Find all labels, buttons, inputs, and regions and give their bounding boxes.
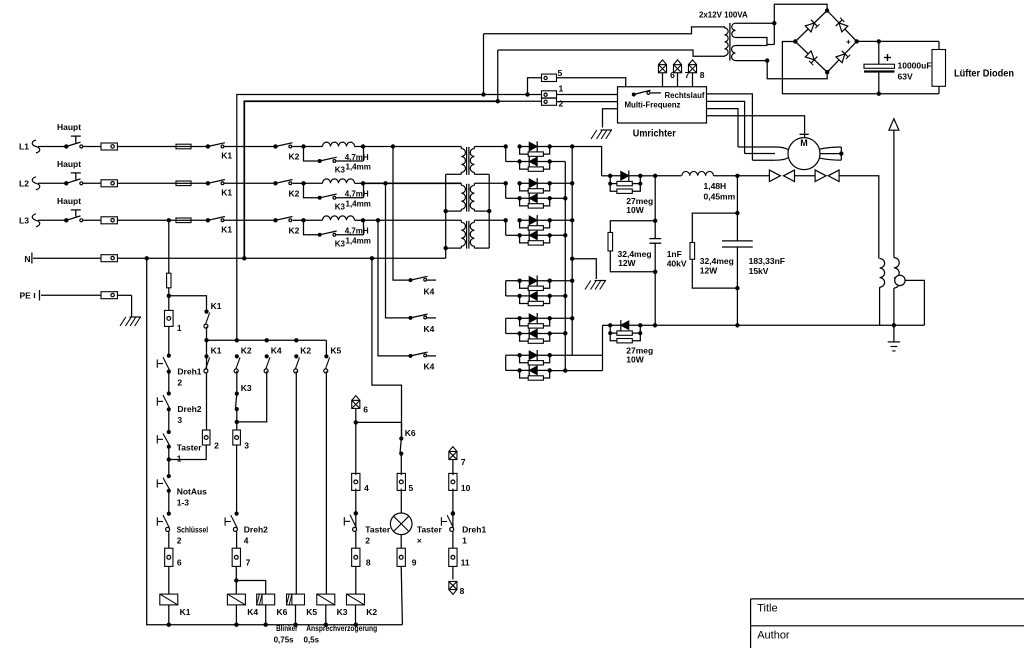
svg-text:63V: 63V: [898, 72, 913, 82]
svg-text:K6: K6: [277, 607, 288, 617]
svg-text:Dreh2: Dreh2: [244, 525, 268, 535]
svg-text:Umrichter: Umrichter: [633, 128, 676, 140]
svg-text:7: 7: [685, 70, 690, 80]
svg-text:10: 10: [461, 483, 471, 493]
svg-text:K6: K6: [405, 428, 416, 438]
svg-text:×: ×: [417, 536, 422, 546]
svg-text:4,7mH: 4,7mH: [345, 190, 369, 199]
svg-text:2: 2: [177, 378, 182, 388]
svg-text:4,7mH: 4,7mH: [345, 153, 369, 162]
svg-text:K1: K1: [211, 346, 222, 356]
svg-text:1: 1: [177, 454, 182, 464]
svg-text:7: 7: [461, 457, 466, 467]
svg-text:Dreh2: Dreh2: [177, 404, 201, 414]
svg-text:L1: L1: [19, 142, 29, 152]
svg-text:8: 8: [700, 70, 705, 80]
svg-text:2: 2: [365, 536, 370, 546]
svg-text:12W: 12W: [618, 258, 636, 268]
svg-text:7: 7: [246, 558, 251, 568]
svg-text:5: 5: [558, 68, 563, 78]
svg-text:L3: L3: [19, 216, 29, 226]
svg-text:Haupt: Haupt: [57, 122, 81, 132]
svg-text:NotAus: NotAus: [177, 487, 207, 497]
svg-text:Blinker: Blinker: [276, 624, 298, 633]
svg-text:4,7mH: 4,7mH: [345, 227, 369, 236]
svg-text:1-3: 1-3: [177, 498, 190, 508]
svg-text:Schlüssel: Schlüssel: [177, 525, 208, 535]
svg-text:K1: K1: [221, 188, 232, 198]
svg-text:K4: K4: [424, 324, 435, 334]
svg-text:Taster: Taster: [417, 525, 443, 535]
svg-text:11: 11: [461, 558, 470, 568]
svg-text:4: 4: [244, 536, 249, 546]
svg-text:1,4mm: 1,4mm: [346, 236, 371, 245]
svg-text:0,45mm: 0,45mm: [704, 192, 736, 202]
svg-text:K2: K2: [289, 225, 300, 235]
svg-text:K2: K2: [289, 188, 300, 198]
svg-text:32,4meg: 32,4meg: [700, 256, 734, 266]
svg-text:3: 3: [244, 441, 249, 451]
svg-text:K1: K1: [221, 151, 232, 161]
svg-text:K3: K3: [335, 166, 346, 175]
svg-text:5: 5: [409, 483, 414, 493]
svg-text:Lüfter Dioden: Lüfter Dioden: [954, 69, 1014, 80]
svg-text:3: 3: [177, 415, 182, 425]
svg-text:K3: K3: [241, 383, 252, 393]
svg-text:Author: Author: [757, 630, 790, 642]
svg-text:1,4mm: 1,4mm: [346, 163, 371, 172]
svg-text:+: +: [846, 38, 851, 47]
svg-text:Haupt: Haupt: [57, 196, 81, 206]
svg-text:K2: K2: [289, 152, 300, 162]
svg-text:2: 2: [214, 441, 219, 451]
svg-text:K4: K4: [424, 287, 435, 297]
svg-text:N: N: [24, 254, 30, 264]
svg-text:0,75s: 0,75s: [274, 636, 295, 645]
svg-text:Ansprechverzögerung: Ansprechverzögerung: [306, 624, 377, 633]
svg-text:15kV: 15kV: [749, 266, 769, 276]
svg-text:K2: K2: [366, 607, 377, 617]
svg-text:10W: 10W: [626, 205, 644, 215]
svg-text:M: M: [800, 138, 808, 148]
svg-text:6: 6: [177, 558, 182, 568]
svg-text:K4: K4: [271, 346, 282, 356]
svg-text:12W: 12W: [700, 266, 718, 276]
svg-text:Dreh1: Dreh1: [177, 367, 201, 377]
svg-text:Dreh1: Dreh1: [462, 525, 486, 535]
svg-text:1,4mm: 1,4mm: [346, 199, 371, 208]
svg-text:1,48H: 1,48H: [704, 181, 727, 191]
svg-text:PE: PE: [20, 291, 32, 301]
svg-text:2: 2: [177, 536, 182, 546]
svg-text:8: 8: [460, 586, 465, 596]
svg-text:Rechtslauf: Rechtslauf: [665, 91, 705, 100]
svg-text:2: 2: [559, 99, 564, 109]
svg-text:Title: Title: [757, 603, 777, 615]
svg-text:K1: K1: [221, 225, 232, 235]
svg-text:1: 1: [462, 536, 467, 546]
svg-text:Taster: Taster: [177, 443, 203, 453]
svg-text:K3: K3: [337, 607, 348, 617]
svg-text:4: 4: [364, 483, 369, 493]
svg-text:Haupt: Haupt: [57, 159, 81, 169]
svg-text:183,33nF: 183,33nF: [749, 256, 785, 266]
svg-text:K4: K4: [424, 362, 435, 372]
svg-text:Taster: Taster: [365, 525, 391, 535]
svg-text:9: 9: [412, 558, 417, 568]
svg-text:1: 1: [559, 84, 564, 94]
svg-text:L2: L2: [19, 179, 29, 189]
svg-text:10000uF: 10000uF: [898, 61, 932, 71]
svg-text:8: 8: [366, 558, 371, 568]
svg-text:0,5s: 0,5s: [304, 636, 320, 645]
svg-text:K5: K5: [330, 346, 341, 356]
svg-text:10W: 10W: [626, 354, 644, 364]
svg-text:K5: K5: [306, 607, 317, 617]
svg-text:1: 1: [177, 323, 182, 333]
svg-text:K2: K2: [241, 346, 252, 356]
svg-text:1nF: 1nF: [667, 249, 682, 259]
svg-text:K3: K3: [335, 202, 346, 211]
svg-text:2x12V 100VA: 2x12V 100VA: [699, 10, 748, 20]
svg-text:K2: K2: [300, 346, 311, 356]
svg-text:K1: K1: [211, 301, 222, 311]
svg-text:6: 6: [363, 405, 368, 415]
svg-text:Multi-Frequenz: Multi-Frequenz: [625, 101, 681, 110]
svg-text:K1: K1: [180, 607, 191, 617]
svg-text:K4: K4: [247, 607, 258, 617]
svg-text:40kV: 40kV: [667, 259, 687, 269]
svg-text:K3: K3: [335, 239, 346, 248]
